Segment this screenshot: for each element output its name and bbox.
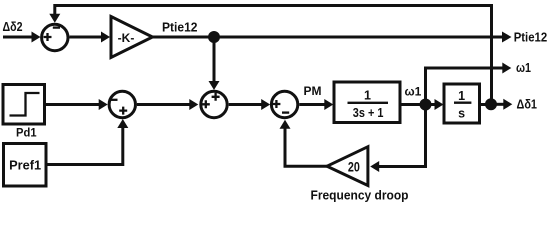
integrator block 1/s (444, 84, 480, 123)
svg-text:PM: PM (304, 84, 322, 98)
wire: ω1 node up and right to ω1 output arrow (426, 63, 512, 105)
summer S3 (+ +) (201, 91, 227, 117)
wire/output arrow Δδ1 (491, 99, 512, 110)
gain block -K- (tie-line) (111, 17, 153, 58)
svg-text:1: 1 (364, 88, 371, 102)
svg-text:Δδ1: Δδ1 (517, 96, 538, 111)
svg-text:ω1: ω1 (516, 61, 531, 75)
svg-text:ω1: ω1 (405, 85, 422, 99)
label Δδ2 input (3, 20, 23, 34)
wire: S4 output into transfer function block (299, 99, 333, 110)
wire: Pd1 output into summer S2 (45, 99, 108, 110)
svg-text:s: s (458, 107, 465, 121)
svg-text:20: 20 (348, 159, 360, 174)
svg-text:Δδ2: Δδ2 (3, 20, 23, 34)
label Ptie12 output (514, 30, 548, 45)
label ω1 (net name at TF output) (405, 85, 422, 99)
wire: S2 output to summer S3 (137, 99, 198, 110)
wire: Ptie12 node down into summer S3 (209, 37, 220, 90)
svg-text:1: 1 (458, 89, 465, 103)
svg-text:-K-: -K- (118, 31, 135, 45)
wire: droop output left then up into summer S4 (280, 120, 328, 166)
svg-text:Frequency droop: Frequency droop (311, 188, 409, 203)
label Ptie12 (net name above wire) (162, 21, 198, 35)
svg-text:Pref1: Pref1 (9, 159, 41, 173)
transfer function block 1/(3s+1) (334, 82, 400, 123)
wire: Δδ2 input into summer S1 (3, 32, 41, 43)
wire: S3 output to summer S4 (229, 99, 271, 110)
wire: S1 output to gain -K- (70, 32, 111, 43)
wire: feedback from node Δδ1 up over the top into summer S1 (49, 6, 491, 105)
svg-text:Pd1: Pd1 (16, 126, 37, 140)
svg-text:3s + 1: 3s + 1 (353, 106, 384, 120)
wire: TF output to integrator (400, 99, 444, 110)
summer S4 (+ -) (271, 91, 297, 117)
constant block Pref1 (4, 144, 47, 187)
label ω1 output (516, 61, 531, 75)
step source block Pd1 (3, 85, 45, 125)
junction node Ptie12 (208, 31, 220, 43)
wire: gain output across to Ptie12 output arrow (153, 36, 504, 39)
junction node Δδ1 (485, 98, 497, 110)
summer S1 (Δδ2 + feedback) (42, 24, 68, 50)
summer S2 (Pd1 - , Pref1 +) (109, 91, 135, 117)
label PM (net name) (304, 84, 322, 98)
label Δδ1 output (517, 96, 538, 111)
wire: integrator output to node Δδ1 (480, 103, 492, 106)
label Frequency droop (311, 188, 409, 203)
wire: Pref1 output right then up into summer S2 (46, 119, 128, 165)
label Pd1 (16, 126, 37, 140)
gain block 20 (Frequency droop) (327, 147, 368, 186)
svg-text:Ptie12: Ptie12 (514, 30, 548, 45)
svg-text:Ptie12: Ptie12 (162, 21, 198, 35)
junction node ω1 (420, 99, 432, 111)
wire: ω1 node down to droop gain input (370, 105, 425, 173)
output arrow Ptie12 (502, 32, 512, 43)
